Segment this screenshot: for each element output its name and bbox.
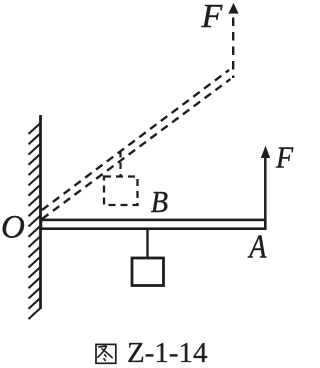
svg-text:F: F xyxy=(275,141,294,174)
svg-text:O: O xyxy=(1,210,25,246)
svg-text:A: A xyxy=(247,227,266,265)
svg-text:B: B xyxy=(151,186,168,219)
svg-text:Z-1-14: Z-1-14 xyxy=(127,337,208,368)
svg-text:F: F xyxy=(201,0,224,35)
